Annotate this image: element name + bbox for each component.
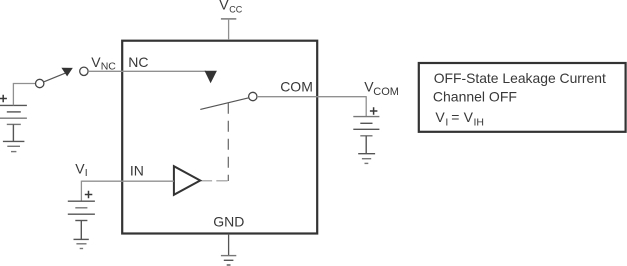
control buffer amplifier [174, 166, 200, 195]
svg-text:V: V [464, 109, 474, 125]
VCC terminal bar [221, 18, 236, 20]
svg-text:IN: IN [130, 163, 144, 179]
annotation text line 2 [433, 89, 517, 105]
pin label IN [130, 163, 144, 179]
voltage source VNC battery [0, 105, 27, 124]
plus sign of VCOM battery [370, 107, 378, 115]
svg-text:COM: COM [280, 79, 313, 95]
dashed control link horizontal [201, 180, 229, 182]
annotation text line 1 [434, 70, 606, 86]
svg-text:I: I [85, 167, 88, 179]
label VNC [91, 54, 116, 73]
ground (VNC battery) [3, 141, 25, 151]
plus sign of VNC battery [0, 95, 7, 103]
svg-text:V: V [75, 160, 85, 176]
svg-text:IH: IH [474, 116, 485, 128]
plus sign of VI battery [85, 191, 93, 199]
svg-text:Channel OFF: Channel OFF [433, 89, 517, 105]
ground (VCOM battery) [358, 154, 375, 164]
wire VCOM riser [365, 96, 367, 116]
node VNC terminal circle [80, 67, 88, 75]
svg-text:I: I [445, 116, 448, 128]
svg-text:COM: COM [373, 86, 399, 98]
svg-text:V: V [91, 54, 101, 70]
wire VNC battery to ground [12, 124, 14, 141]
annotation text line 3 [435, 109, 484, 129]
annotation box [419, 63, 626, 132]
svg-text:=: = [451, 109, 459, 125]
wire VCC to box [228, 19, 230, 40]
voltage source VI battery [68, 201, 95, 220]
wire VNC to NC pin [88, 70, 206, 72]
svg-text:OFF-State Leakage Current: OFF-State Leakage Current [434, 70, 606, 86]
wire VI to IN pin [81, 180, 173, 182]
wire VNC battery to switch pole [13, 84, 35, 106]
svg-text:V: V [435, 109, 445, 125]
dashed control link vertical [227, 103, 229, 181]
svg-text:GND: GND [213, 213, 244, 229]
svg-text:V: V [219, 0, 229, 12]
switch S1 blade arrowhead [61, 68, 72, 77]
label VI [75, 160, 88, 179]
switch S1 blade [44, 73, 66, 82]
pin label GND [213, 213, 244, 229]
wire VI battery to ground [80, 221, 82, 240]
wire GND pin to ground [228, 234, 230, 256]
ground (GND pin) [221, 256, 236, 265]
wire VCOM battery to ground [365, 136, 367, 154]
ground (VI battery) [74, 239, 89, 248]
svg-text:NC: NC [128, 54, 148, 70]
label VCC [219, 0, 243, 14]
switch blade inside box [200, 98, 248, 110]
NC throw arrowhead [205, 71, 217, 84]
switch S1 pole contact [36, 79, 44, 87]
wire COM to VCOM [257, 96, 366, 98]
COM contact circle [249, 92, 257, 100]
svg-text:CC: CC [229, 4, 242, 14]
wire VI source riser [80, 181, 82, 202]
pin label NC [128, 54, 148, 70]
IC box U1 [122, 41, 317, 234]
voltage source VCOM battery [353, 117, 379, 136]
pin label COM [280, 79, 313, 95]
label VCOM [364, 78, 399, 98]
